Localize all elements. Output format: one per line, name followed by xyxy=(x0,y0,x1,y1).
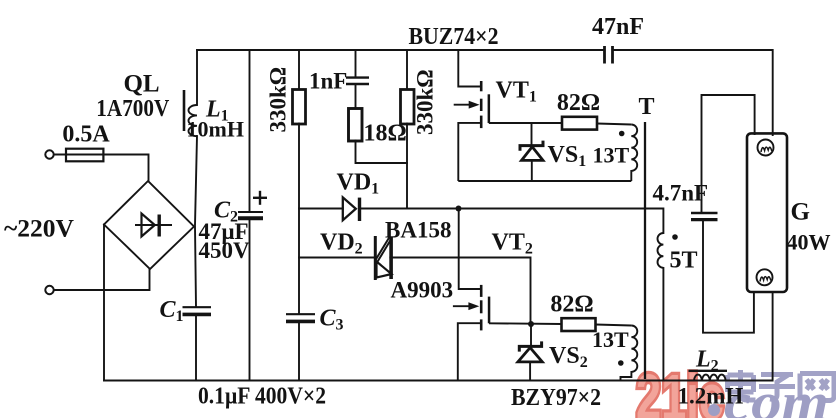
svg-text:~220V: ~220V xyxy=(4,216,74,243)
svg-text:0.5A: 0.5A xyxy=(62,122,110,148)
resistor 82ohm #1 xyxy=(562,117,597,130)
resistor 18ohm xyxy=(349,109,363,142)
svg-text:82Ω: 82Ω xyxy=(550,292,593,318)
wire top rail xyxy=(197,49,604,51)
winding 5T xyxy=(658,233,664,268)
capacitor C1 xyxy=(183,307,212,314)
diode VD2 A9903 double symbol xyxy=(374,236,393,280)
watermark .com xyxy=(708,404,720,416)
transformer winding 13T #1 xyxy=(631,125,637,182)
polarity dot 5T xyxy=(672,234,678,240)
lamp G 40W tube xyxy=(747,133,787,292)
terminal input top xyxy=(45,150,53,158)
svg-text:82Ω: 82Ω xyxy=(557,90,600,116)
svg-text:330kΩ: 330kΩ xyxy=(266,67,291,133)
lamp filament top xyxy=(758,140,774,156)
wire VT1 gate line to 82ohm xyxy=(489,122,562,124)
svg-text:10mH: 10mH xyxy=(187,117,244,142)
wire VD1 midpoint line xyxy=(299,208,343,210)
svg-text:BA158: BA158 xyxy=(385,218,451,243)
diode VD1 BA158 xyxy=(343,197,361,221)
capacitor 47nF xyxy=(605,46,613,64)
wire VT2 gate line to 82ohm xyxy=(489,322,562,325)
capacitor C3 xyxy=(286,314,315,321)
svg-text:4.7nF: 4.7nF xyxy=(653,181,709,206)
resistor 82ohm #2 xyxy=(562,318,596,331)
transformer core xyxy=(644,122,646,379)
svg-text:450V: 450V xyxy=(199,238,251,263)
svg-text:5T: 5T xyxy=(670,248,698,274)
capacitor 4.7nF xyxy=(691,213,718,220)
svg-text:QL: QL xyxy=(123,71,159,98)
wire AC input bottom xyxy=(54,270,150,290)
svg-text:47nF: 47nF xyxy=(592,14,644,40)
svg-text:1nF: 1nF xyxy=(309,69,347,94)
label L2 underline xyxy=(689,370,728,372)
transformer winding 13T #2 xyxy=(621,326,638,381)
wire 4.7nF bottom lead to lamp xyxy=(703,220,754,333)
node junction dot VD1-midpoint xyxy=(456,206,462,212)
terminal input bottom xyxy=(45,286,53,294)
svg-text:13T: 13T xyxy=(593,143,630,168)
resistor 330k #2 xyxy=(401,90,415,125)
svg-text:330kΩ: 330kΩ xyxy=(413,69,438,135)
node junction dot VT2 gate xyxy=(528,321,534,327)
wire 330k-2 branch xyxy=(406,50,408,90)
svg-text:BUZ74×2: BUZ74×2 xyxy=(409,24,499,50)
polarity dot w2 xyxy=(618,360,624,366)
svg-text:0.1μF 400V×2: 0.1μF 400V×2 xyxy=(198,384,326,410)
zener VS1 xyxy=(520,123,543,181)
wire VD2 line xyxy=(299,257,374,259)
svg-text:13T: 13T xyxy=(592,327,629,352)
svg-text:18Ω: 18Ω xyxy=(364,121,407,147)
resistor 330k #1 xyxy=(293,90,306,125)
wire AC input top xyxy=(54,155,149,182)
svg-text:A9903: A9903 xyxy=(391,278,454,303)
inductor L2 1.2mH xyxy=(694,375,726,381)
capacitor 1nF xyxy=(346,78,369,84)
wire VT1 source line xyxy=(458,180,631,182)
svg-text:G: G xyxy=(791,199,810,226)
bridge rectifier QL xyxy=(104,181,194,269)
MOSFET VT2 xyxy=(453,209,490,381)
wire C2 branch xyxy=(249,50,251,212)
fuse 0.5A xyxy=(66,149,103,162)
polarity dot w1 xyxy=(619,131,625,137)
svg-text:1.2mH: 1.2mH xyxy=(678,384,744,409)
wire 330k-1 / C3 branch xyxy=(298,50,300,90)
svg-text:T: T xyxy=(638,94,654,120)
svg-text:40W: 40W xyxy=(787,230,831,255)
svg-text:BZY97×2: BZY97×2 xyxy=(511,385,601,411)
MOSFET VT1 xyxy=(454,50,490,181)
watermark dianziwang glyphs xyxy=(728,370,835,401)
wire 4.7nF top lead xyxy=(702,95,755,213)
inductor L1 10mH xyxy=(184,90,197,136)
capacitor C2 47uF 450V electrolytic xyxy=(238,191,267,218)
wire bridge minus down xyxy=(103,225,105,381)
wire bottom rail xyxy=(104,292,773,381)
lamp filament bottom xyxy=(757,269,773,285)
wire 82ohm2 to winding w2 xyxy=(596,325,632,326)
zener VS2 xyxy=(518,324,542,381)
wire 1nF 18ohm branch xyxy=(355,50,357,77)
wire 82ohm to winding w1 xyxy=(597,124,631,125)
wire bridge plus down through C1 xyxy=(195,227,196,307)
wire L1 bus vertical xyxy=(196,50,198,105)
svg-text:1A700V: 1A700V xyxy=(96,96,170,122)
